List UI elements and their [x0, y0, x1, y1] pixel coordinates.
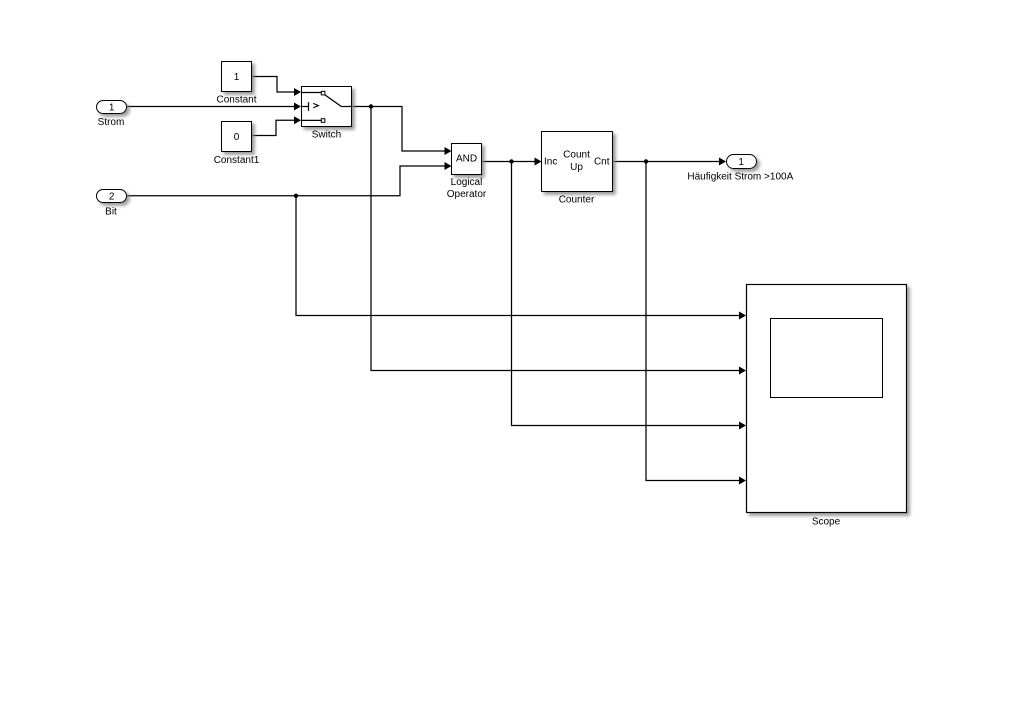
- logical operator AND: [447, 144, 487, 200]
- svg-text:Constant: Constant: [216, 95, 256, 106]
- junction switch output: [369, 104, 373, 108]
- wire Bit to AND bottom input: [127, 162, 452, 196]
- junction Counter output: [644, 159, 648, 163]
- counter Counter: [542, 132, 613, 206]
- svg-text:2: 2: [109, 192, 115, 203]
- scope Scope: [747, 285, 907, 528]
- svg-text:Inc: Inc: [544, 156, 557, 167]
- svg-text:Operator: Operator: [447, 189, 487, 200]
- svg-text:1: 1: [109, 103, 115, 114]
- wire Constant1 to Switch bottom input: [252, 116, 301, 135]
- wire Switch to AND top input: [352, 107, 452, 156]
- outport 1 Häufigkeit Strom >100A: [687, 155, 793, 183]
- svg-text:Counter: Counter: [559, 195, 595, 206]
- inport 1 Strom: [97, 101, 127, 129]
- junction Bit: [294, 194, 298, 198]
- svg-text:0: 0: [234, 132, 240, 143]
- svg-text:Count: Count: [563, 150, 590, 161]
- junction AND output: [509, 159, 513, 163]
- inport 2 Bit: [97, 190, 127, 218]
- svg-text:Strom: Strom: [98, 117, 125, 128]
- wire Switch branch to Scope input 2: [371, 107, 746, 375]
- wire AND branch to Scope input 3: [512, 162, 747, 430]
- switch Switch: [302, 87, 352, 141]
- svg-text:1: 1: [738, 157, 744, 168]
- constant Constant value 1: [216, 62, 256, 106]
- wire Bit branch to Scope input 1: [296, 196, 746, 320]
- svg-text:Bit: Bit: [105, 207, 117, 218]
- svg-text:Häufigkeit Strom >100A: Häufigkeit Strom >100A: [687, 172, 793, 183]
- svg-text:Scope: Scope: [812, 517, 841, 528]
- svg-text:Constant1: Constant1: [214, 155, 260, 166]
- svg-text:AND: AND: [456, 154, 477, 165]
- wire Counter branch to Scope input 4: [646, 162, 746, 485]
- wire Constant to Switch top input: [252, 77, 301, 97]
- svg-text:Switch: Switch: [312, 130, 341, 141]
- wire Strom to Switch: [127, 103, 301, 111]
- constant Constant1 value 0: [214, 122, 260, 167]
- wire Counter to outport: [613, 158, 727, 166]
- svg-text:Up: Up: [570, 162, 583, 173]
- svg-text:Logical: Logical: [451, 177, 483, 188]
- svg-text:1: 1: [234, 72, 240, 83]
- wire AND to Counter: [482, 158, 542, 166]
- svg-text:Cnt: Cnt: [594, 156, 610, 167]
